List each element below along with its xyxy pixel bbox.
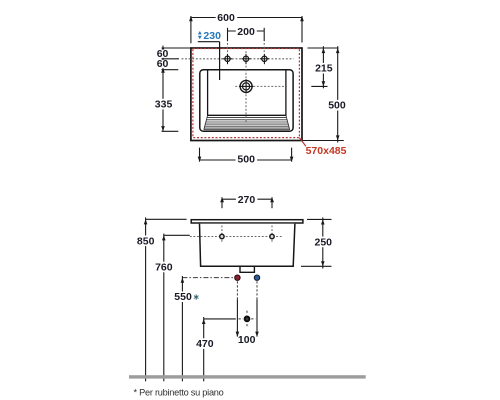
svg-text:60: 60 bbox=[157, 58, 169, 70]
svg-text:215: 215 bbox=[315, 63, 333, 75]
svg-text:570x485: 570x485 bbox=[306, 145, 347, 157]
svg-text:250: 250 bbox=[315, 236, 333, 248]
svg-text:270: 270 bbox=[238, 194, 256, 206]
svg-text:100: 100 bbox=[238, 334, 256, 346]
svg-text:335: 335 bbox=[155, 98, 173, 110]
svg-text:500: 500 bbox=[237, 153, 255, 165]
svg-text:200: 200 bbox=[237, 26, 255, 38]
svg-text:230: 230 bbox=[203, 30, 221, 42]
svg-text:470: 470 bbox=[196, 338, 214, 350]
svg-text:550: 550 bbox=[174, 291, 192, 303]
svg-text:500: 500 bbox=[328, 100, 346, 112]
svg-text:850: 850 bbox=[137, 235, 155, 247]
svg-text:* Per rubinetto su piano: * Per rubinetto su piano bbox=[134, 387, 224, 397]
svg-text:600: 600 bbox=[217, 12, 235, 24]
svg-text:760: 760 bbox=[155, 262, 173, 274]
